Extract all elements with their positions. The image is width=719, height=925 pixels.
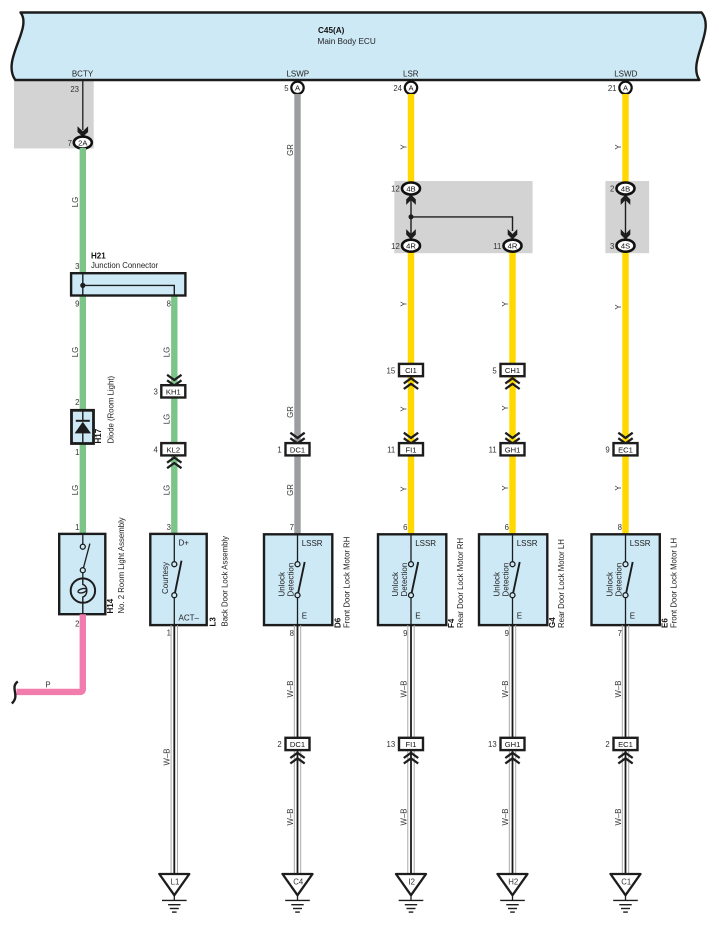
connector DC1 lower with chevrons [286,738,310,764]
svg-text:F4: F4 [447,618,456,628]
svg-text:CH1: CH1 [505,366,520,375]
svg-text:9: 9 [75,300,79,309]
svg-text:ACT–: ACT– [179,614,200,623]
svg-text:6: 6 [505,523,509,532]
arrow down into 4R (column 5) [508,229,518,239]
svg-text:9: 9 [403,629,407,638]
svg-text:2A: 2A [78,139,88,148]
svg-text:Main Body ECU: Main Body ECU [318,37,376,46]
svg-text:W–B: W–B [399,681,408,698]
wire LG from H21 pin 8 to L3 pin 3 (column 2) [171,295,177,535]
svg-text:7: 7 [68,139,72,148]
svg-text:4R: 4R [406,242,416,251]
ground H2 [498,874,528,912]
svg-text:Unlock: Unlock [278,571,287,596]
svg-text:W–B: W–B [286,809,295,826]
svg-text:Y: Y [614,144,623,150]
svg-text:D+: D+ [179,539,190,548]
svg-text:P: P [45,681,50,690]
svg-text:Y: Y [614,485,623,491]
svg-text:4R: 4R [508,242,518,251]
svg-text:LG: LG [71,485,80,495]
svg-text:W–B: W–B [286,681,295,698]
svg-text:4S: 4S [621,242,630,251]
svg-text:No. 2 Room Light Assembly: No. 2 Room Light Assembly [117,517,126,613]
front door lock motor LH E6 box [592,534,660,625]
connector EC1 with chevrons (column 6) [614,433,638,456]
svg-text:1: 1 [167,629,171,638]
connector GH1 lower with chevrons [501,738,525,764]
svg-text:L1: L1 [171,878,180,887]
svg-text:6: 6 [403,523,407,532]
node 4B (column 4) arrow up [406,195,416,218]
svg-text:LSSR: LSSR [415,539,436,548]
svg-text:Unlock: Unlock [493,571,502,596]
wire Y from 4S to E6 pin 8 (column 6) [622,251,628,535]
connector circle A at LSWP pin 5 [291,82,303,94]
svg-text:DC1: DC1 [290,445,305,454]
svg-text:9: 9 [605,446,609,455]
svg-text:H14: H14 [106,598,115,613]
svg-text:Diode (Room Light): Diode (Room Light) [107,375,116,443]
svg-text:E: E [630,612,635,621]
svg-text:L3: L3 [209,617,218,627]
svg-text:Courtesy: Courtesy [161,562,170,594]
svg-text:3: 3 [167,523,171,532]
wire LG from H21 pin 9 to diode (column 1) [80,295,86,410]
rear door lock motor LH G4 box [479,534,547,625]
svg-text:13: 13 [488,740,497,749]
svg-text:Y: Y [501,301,510,307]
svg-text:7: 7 [618,629,622,638]
wire W-B from D6 pin 8 to ground C4 [294,625,300,874]
connector circle A at LSWD pin 21 [619,82,631,94]
double arrow between 4B and 4S (column 6) [621,195,631,240]
svg-text:1: 1 [75,448,79,457]
svg-text:Detection: Detection [501,563,510,597]
svg-text:1: 1 [277,446,281,455]
svg-text:5: 5 [492,366,497,375]
rear door lock motor RH F4 box [378,534,446,625]
svg-text:LSR: LSR [403,70,419,79]
ground C1 [611,874,641,912]
wire Y from 4R to G4 pin 6 (column 5) [509,251,515,535]
svg-text:G4: G4 [548,617,557,628]
shield box (LSR 4B/4R gray) [394,181,532,253]
svg-text:2: 2 [610,185,614,194]
svg-text:23: 23 [70,85,79,94]
junction connector H21 box [71,273,185,295]
svg-text:3: 3 [153,388,157,397]
svg-text:E: E [517,612,522,621]
svg-text:H2: H2 [508,878,518,887]
svg-text:LG: LG [163,414,172,424]
svg-text:LG: LG [163,485,172,495]
svg-text:E: E [302,612,307,621]
svg-text:DC1: DC1 [290,740,305,749]
svg-text:2: 2 [75,620,79,629]
label Unlock Detection [493,563,511,597]
svg-text:E6: E6 [661,618,670,628]
svg-text:21: 21 [608,84,617,93]
ground C4 [283,874,313,912]
svg-text:W–B: W–B [399,809,408,826]
diode H17 box [72,410,94,443]
svg-text:I2: I2 [408,878,415,887]
svg-text:Y: Y [501,485,510,491]
svg-text:LSWD: LSWD [614,70,637,79]
svg-text:12: 12 [391,242,400,251]
svg-text:C45(A): C45(A) [318,26,345,35]
svg-text:EC1: EC1 [618,445,633,454]
svg-text:Y: Y [399,406,408,412]
svg-text:Junction Connector: Junction Connector [91,261,159,270]
wire W-B from F4 pin 9 to ground I2 [408,625,414,874]
svg-text:Detection: Detection [286,563,295,597]
connector circle A at LSR pin 24 [405,82,417,94]
svg-text:Y: Y [399,301,408,307]
label Unlock Detection [278,563,296,597]
svg-text:C4: C4 [293,878,304,887]
wire GR from LSWP to D6 (column 3) [294,94,300,535]
connector CI1 with chevrons (column 4) [399,364,423,389]
svg-text:Detection: Detection [614,563,623,597]
svg-text:LG: LG [71,197,80,207]
arrow down into 4R (column 4) [406,217,416,240]
svg-text:1: 1 [75,523,79,532]
front door lock motor RH D6 box [264,534,332,625]
label Unlock Detection [391,563,409,597]
connector FI1 with chevrons (column 4) [399,433,423,456]
label Unlock Detection [606,563,624,597]
svg-text:2: 2 [277,740,281,749]
svg-text:Rear Door Lock Motor LH: Rear Door Lock Motor LH [557,539,566,628]
svg-text:8: 8 [618,523,622,532]
svg-text:W–B: W–B [501,681,510,698]
svg-text:LG: LG [163,347,172,357]
svg-text:11: 11 [489,446,497,455]
svg-text:24: 24 [393,84,402,93]
svg-text:KL2: KL2 [167,445,181,454]
svg-text:GH1: GH1 [505,445,521,454]
svg-text:15: 15 [387,366,396,375]
shield box (LSWD 4B/4S gray) [605,181,649,253]
svg-text:FI1: FI1 [406,445,417,454]
wire W-B from E6 pin 7 to ground C1 [622,625,628,874]
svg-text:Unlock: Unlock [391,571,400,596]
svg-text:4B: 4B [406,184,415,193]
wire W-B from G4 pin 9 to ground H2 [509,625,515,874]
svg-text:W–B: W–B [163,749,172,766]
ground L1 [159,874,189,912]
svg-text:D6: D6 [334,617,343,628]
svg-text:GR: GR [286,406,295,418]
wire P pink from H14 pin 2 [17,614,83,692]
svg-text:GR: GR [286,144,295,156]
ground I2 [396,874,426,912]
svg-text:GR: GR [286,484,295,496]
connector oval 4R (column 5) [504,240,522,252]
room light H14 box [59,534,105,614]
svg-text:Back Door Lock Assembly: Back Door Lock Assembly [221,536,230,627]
connector GH1 with chevrons (column 5) [501,433,525,456]
wire branch to 4R column 5 [411,217,513,231]
svg-text:C1: C1 [621,878,631,887]
svg-text:E: E [415,612,420,621]
svg-text:LSWP: LSWP [286,70,309,79]
svg-text:H21: H21 [91,252,106,261]
connector oval 4S (column 6) [617,240,635,252]
svg-text:LG: LG [71,347,80,357]
svg-text:4B: 4B [621,184,630,193]
svg-text:LSSR: LSSR [630,539,651,548]
ECU C45(A) Main Body ECU box [12,13,706,81]
svg-text:Y: Y [501,405,510,411]
connector oval 4B (column 6) [617,183,635,195]
svg-text:8: 8 [290,629,294,638]
svg-text:7: 7 [290,523,294,532]
svg-text:3: 3 [610,242,614,251]
connector oval 4R (column 4) [402,240,420,252]
svg-text:4: 4 [153,446,158,455]
connector DC1 with chevrons (column 3) [286,433,310,456]
svg-text:Front Door Lock Motor LH: Front Door Lock Motor LH [670,538,679,628]
svg-text:H17: H17 [94,428,103,443]
svg-text:GH1: GH1 [505,740,521,749]
pin 23 wire from BCTY with arrow [78,80,89,137]
connector CH1 with chevrons (column 5) [501,364,525,389]
svg-text:9: 9 [505,629,509,638]
svg-text:Y: Y [614,304,623,310]
back door lock assembly L3 box [150,534,206,625]
wire Y from LSWD to 4B (column 6) [622,94,628,183]
svg-text:LSSR: LSSR [517,539,538,548]
connector KL2 with chevrons [161,443,185,468]
svg-text:BCTY: BCTY [72,70,94,79]
svg-text:Unlock: Unlock [606,571,615,596]
connector 2A oval [74,137,92,149]
svg-text:11: 11 [493,242,501,251]
svg-text:W–B: W–B [614,681,623,698]
svg-text:EC1: EC1 [618,740,633,749]
junction dot [409,214,414,219]
svg-text:12: 12 [391,185,400,194]
wire W-B from L3 pin 1 to ground L1 [171,625,177,874]
svg-text:FI1: FI1 [406,740,417,749]
wire Y from LSR to 4B (column 4) [408,94,414,183]
svg-text:11: 11 [387,446,395,455]
svg-text:Front Door Lock Motor RH: Front Door Lock Motor RH [343,537,352,628]
wire LG from 2A to H21 pin 3 (column 1) [80,148,86,274]
wire Y from 4R to F4 pin 6 (column 4) [408,251,414,535]
svg-text:8: 8 [167,300,171,309]
svg-text:Y: Y [399,144,408,150]
svg-text:W–B: W–B [501,809,510,826]
connector EC1 lower with chevrons [614,738,638,764]
svg-text:2: 2 [605,740,609,749]
svg-text:CI1: CI1 [405,366,417,375]
connector FI1 lower with chevrons [399,738,423,764]
svg-text:LSSR: LSSR [302,539,323,548]
connector KH1 with chevrons [161,375,185,398]
svg-text:2: 2 [75,398,79,407]
wire LG from diode to H14 (column 1) [80,444,86,535]
svg-text:W–B: W–B [614,809,623,826]
shield box (top left gray) [14,81,94,148]
svg-text:5: 5 [284,84,289,93]
svg-text:KH1: KH1 [166,387,181,396]
svg-text:3: 3 [75,262,79,271]
svg-text:Rear Door Lock Motor RH: Rear Door Lock Motor RH [456,538,465,628]
svg-text:Y: Y [399,486,408,492]
svg-text:Detection: Detection [400,563,409,597]
wire break squiggle [12,682,18,704]
svg-text:13: 13 [387,740,396,749]
connector oval 4B (column 4) [402,183,420,195]
